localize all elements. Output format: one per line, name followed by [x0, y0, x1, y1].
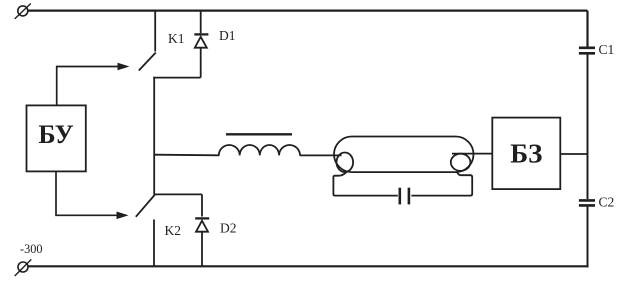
- capacitor C1: [579, 48, 595, 54]
- svg-text:C1: C1: [599, 42, 615, 57]
- wire BU upper lead: [57, 67, 119, 106]
- wire right bus lower: [587, 207, 589, 268]
- inductor core bar: [226, 133, 292, 135]
- wire right bus middle: [587, 55, 589, 200]
- capacitor C2: [579, 200, 595, 205]
- wire top bus: [28, 10, 588, 12]
- wire BZ to right bus: [560, 153, 587, 155]
- arrow to K2: [117, 212, 129, 220]
- svg-text:D2: D2: [220, 221, 237, 236]
- wire lamp to BZ: [452, 153, 492, 155]
- wire K1-D1 junction: [153, 77, 200, 79]
- wire inductor to lamp: [300, 154, 342, 156]
- lamp electrode left: [337, 153, 354, 173]
- block BU control unit: [27, 105, 86, 171]
- svg-text:БЗ: БЗ: [510, 139, 542, 169]
- arrow to K1: [118, 63, 130, 71]
- svg-text:K1: K1: [168, 31, 185, 46]
- wire BU lower lead: [56, 171, 117, 215]
- diode D2: [195, 194, 209, 267]
- lamp tube EL1: [334, 137, 474, 173]
- wire K1 lower contact / center branch: [153, 77, 155, 195]
- block BZ ignition unit: [492, 118, 560, 190]
- wire middle bus node to inductor: [154, 154, 219, 157]
- svg-text:D1: D1: [219, 28, 236, 43]
- switch K2: [136, 195, 155, 268]
- terminal T1 top-left input: [15, 4, 31, 19]
- wire right bus upper: [586, 11, 588, 47]
- wire bottom bus: [28, 265, 589, 267]
- wire starter loop right: [411, 172, 472, 196]
- svg-text:K2: K2: [165, 223, 182, 238]
- svg-text:C2: C2: [599, 195, 615, 210]
- svg-text:-300: -300: [20, 242, 43, 256]
- switch K1: [139, 11, 156, 71]
- inductor L1: [219, 145, 300, 155]
- wire K2-D2 junction: [154, 193, 202, 195]
- lamp electrode right: [451, 154, 471, 171]
- wire starter loop left: [333, 172, 397, 196]
- diode D1: [194, 11, 208, 78]
- svg-text:БУ: БУ: [38, 120, 73, 149]
- terminal T2 bottom-left (-300) input: [15, 259, 32, 276]
- capacitor C3 starter: [400, 188, 409, 205]
